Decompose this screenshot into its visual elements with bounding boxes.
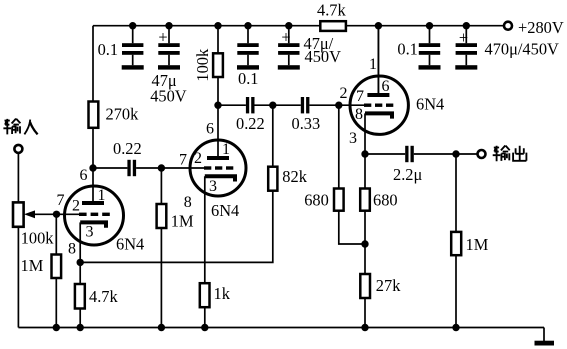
svg-text:8: 8: [68, 241, 76, 258]
wire 680 right bottom to join node: [364, 211, 366, 244]
node bus C3: [244, 22, 251, 29]
node bus C6: [463, 22, 470, 29]
svg-text:680: 680: [373, 191, 398, 210]
capacitor C4 47u/450V electrolytic: [278, 26, 341, 70]
resistor 27k: [360, 274, 401, 298]
tube V3 cathode: [365, 113, 392, 118]
wire 1k to bus: [204, 307, 206, 327]
tube V2 plate: [207, 105, 229, 160]
svg-text:+280V: +280V: [518, 18, 564, 37]
capacitor C6 470u/450V electrolytic: [455, 26, 559, 70]
node output: [452, 150, 459, 157]
svg-text:0.1: 0.1: [397, 40, 418, 59]
resistor 680 left: [304, 189, 343, 211]
capacitor C5 0.1 decoupling: [397, 26, 440, 70]
node bottom 1M output: [452, 324, 459, 331]
svg-text:1k: 1k: [214, 284, 231, 303]
svg-text:82k: 82k: [282, 167, 307, 186]
potentiometer 100k: [13, 202, 54, 247]
svg-text:450V: 450V: [305, 47, 342, 66]
node grid1: [53, 211, 60, 218]
svg-text:+: +: [281, 28, 290, 47]
wire bottom bus: [18, 327, 544, 329]
node cathode3: [361, 150, 368, 157]
wire coupling line1 left segment: [93, 167, 127, 169]
svg-text:1: 1: [369, 56, 377, 73]
terminal input: [14, 145, 22, 153]
wire plate3 lead from top bus: [377, 26, 379, 93]
tube V1 cathode: [80, 222, 106, 227]
node 680 join: [361, 240, 368, 247]
wire coupling line1 right segment to grid2: [136, 167, 204, 169]
tube V1 6N4 envelope: [65, 186, 124, 245]
wire 4.7k to bus: [79, 309, 81, 328]
node plate2: [214, 102, 221, 109]
wire wiper to grid1: [35, 213, 80, 215]
svg-text:100k: 100k: [21, 229, 55, 248]
svg-text:680: 680: [304, 191, 329, 210]
wire grid3 node down to 680 left: [338, 105, 340, 188]
wire 1M input to bus: [55, 278, 57, 328]
svg-text:6: 6: [80, 167, 88, 184]
node interstage 82k: [269, 102, 276, 109]
capacitor 0.22 coupling 2: [236, 97, 265, 133]
node bus C2: [165, 22, 172, 29]
node bus plate3: [375, 22, 382, 29]
resistor 4.7k cathode1: [75, 284, 119, 309]
wire 27k to bus: [364, 298, 366, 328]
node bus C5: [426, 22, 433, 29]
node grid3: [335, 102, 342, 109]
wire output node down to 1M: [455, 154, 457, 232]
wire bus drop to 100k: [217, 26, 219, 54]
terminal output: [478, 150, 486, 158]
svg-text:6: 6: [206, 121, 214, 138]
wire 270k to plate1 node: [92, 128, 94, 168]
resistor 100k plate load: [193, 48, 223, 82]
node bus 100k: [214, 22, 221, 29]
wire join node down to 27k: [364, 244, 366, 274]
svg-text:+: +: [459, 28, 468, 47]
wire 1M mid to bus: [160, 228, 162, 328]
wire output line segment 2: [414, 153, 478, 155]
node bottom 1M input: [53, 324, 60, 331]
wire cathode2 down to 1k: [204, 176, 206, 283]
svg-text:6N4: 6N4: [116, 235, 144, 254]
node bottom 4.7k: [77, 324, 84, 331]
resistor 1M grid2: [157, 204, 194, 231]
wire 100k to plate2 node: [217, 77, 219, 105]
terminal +280V: [504, 18, 564, 37]
resistor 1k cathode2: [200, 283, 231, 307]
svg-text:7: 7: [356, 88, 364, 105]
wire output line segment 1: [365, 153, 405, 155]
node plate1: [89, 164, 96, 171]
label shu-ru input (drawn glyphs): [3, 119, 37, 135]
svg-text:27k: 27k: [376, 276, 401, 295]
tube V2 cathode: [205, 176, 235, 181]
svg-text:0.22: 0.22: [236, 114, 265, 133]
node bottom 27k: [361, 324, 368, 331]
tube V3 plate: [367, 26, 389, 97]
svg-text:450V: 450V: [150, 87, 187, 106]
resistor 680 right: [360, 189, 397, 211]
capacitor C3 0.1 decoupling: [237, 26, 259, 88]
node cathode1 feedback: [77, 259, 84, 266]
svg-text:3: 3: [86, 224, 94, 241]
resistor 82k: [268, 167, 307, 191]
tube V1 plate: [82, 168, 104, 205]
resistor 1M input: [21, 255, 62, 279]
svg-text:8: 8: [355, 106, 363, 123]
label shu-chu output (drawn glyphs): [493, 146, 527, 162]
capacitor 0.33: [292, 97, 321, 133]
svg-text:2: 2: [72, 198, 80, 215]
wire grid2 node down to 1M mid: [160, 168, 162, 204]
resistor 270k: [89, 102, 140, 128]
wire top bus right of 4.7k: [346, 25, 504, 27]
wire 82k top to interstage node: [272, 105, 274, 167]
svg-text:1: 1: [98, 187, 106, 204]
svg-text:1M: 1M: [171, 212, 194, 231]
svg-text:3: 3: [349, 130, 357, 147]
node bus C4: [285, 22, 292, 29]
svg-text:0.22: 0.22: [113, 139, 142, 158]
tube V2 6N4 envelope: [190, 140, 246, 196]
svg-text:2.2μ: 2.2μ: [393, 165, 422, 184]
svg-text:7: 7: [179, 152, 187, 169]
svg-text:0.1: 0.1: [238, 69, 259, 88]
svg-text:6: 6: [382, 78, 390, 95]
svg-text:8: 8: [184, 194, 192, 211]
wire input terminal to pot: [17, 153, 19, 203]
wire pot bottom to bus: [17, 227, 19, 328]
wire ground stub: [543, 328, 545, 342]
resistor 1M output: [451, 232, 488, 255]
svg-text:4.7k: 4.7k: [317, 1, 346, 20]
capacitor C1 0.1 decoupling: [98, 26, 144, 70]
node grid2: [158, 164, 165, 171]
capacitor 2.2u output coupling: [393, 146, 422, 184]
svg-text:1M: 1M: [21, 256, 44, 275]
resistor 4.7k series B+: [317, 1, 346, 31]
svg-text:2: 2: [340, 85, 348, 102]
svg-text:1M: 1M: [466, 235, 489, 254]
tube V1 grid: [79, 213, 110, 216]
svg-text:6N4: 6N4: [416, 95, 444, 114]
svg-text:3: 3: [209, 178, 217, 195]
wire feedback line to 82k bottom: [80, 191, 273, 263]
svg-text:+: +: [158, 28, 167, 47]
svg-text:4.7k: 4.7k: [89, 287, 118, 306]
wire coupling line2 segment 1: [218, 104, 246, 106]
ground symbol: [535, 341, 555, 346]
tube V2 grid: [204, 166, 233, 169]
wire top bus left of 4.7k: [93, 25, 320, 27]
wire 680 left bottom to join node: [339, 211, 365, 244]
svg-text:100k: 100k: [193, 48, 212, 82]
node bus C1: [129, 22, 136, 29]
svg-text:470μ/450V: 470μ/450V: [485, 40, 560, 59]
svg-text:1: 1: [222, 141, 230, 158]
svg-text:7: 7: [57, 192, 65, 209]
svg-text:2: 2: [194, 150, 202, 167]
tube V3 6N4 envelope: [350, 76, 408, 134]
wire cathode3 node down to 680 right: [364, 154, 366, 189]
wire cathode3 lead to node: [364, 113, 366, 154]
svg-text:6N4: 6N4: [211, 201, 239, 220]
svg-text:0.1: 0.1: [98, 40, 119, 59]
capacitor C2 47u/450V electrolytic: [150, 26, 187, 106]
wire left drop bus to 270k: [92, 26, 94, 102]
wire grid1 node down to 1M input: [55, 214, 57, 254]
wire 1M output to bus: [455, 255, 457, 327]
wire coupling line2 segment 2: [255, 104, 301, 106]
tube V3 grid: [364, 104, 393, 107]
wire coupling line2 segment 3 grid3 lead: [309, 104, 364, 106]
wire cathode1 down to feedback node: [79, 222, 81, 262]
svg-text:0.33: 0.33: [292, 114, 321, 133]
node bottom 1M mid: [158, 324, 165, 331]
capacitor 0.22 coupling 1: [113, 139, 142, 176]
node bottom 1k: [201, 324, 208, 331]
svg-text:270k: 270k: [106, 105, 140, 124]
wire feedback node to 4.7k cathode resistor: [79, 262, 81, 284]
